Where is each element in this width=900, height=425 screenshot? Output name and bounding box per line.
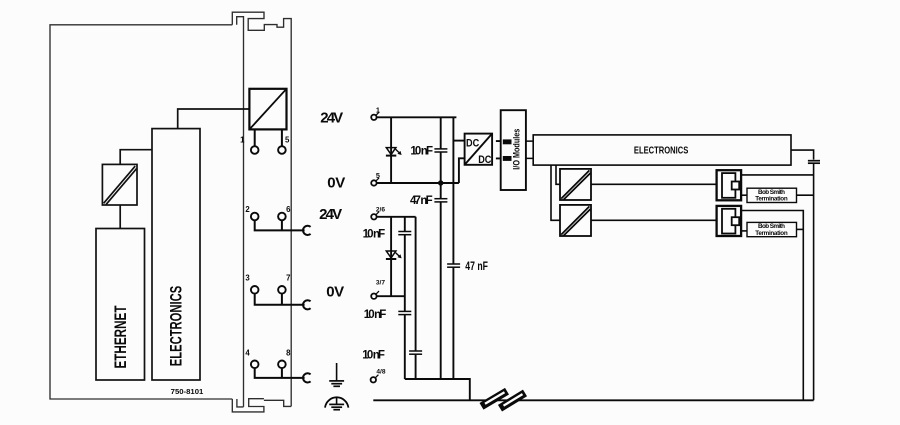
svg-text:5: 5 xyxy=(285,136,290,145)
svg-text:I/O Modules: I/O Modules xyxy=(512,129,523,170)
svg-text:0V: 0V xyxy=(327,175,345,192)
svg-text:10 nF: 10 nF xyxy=(410,145,433,157)
svg-text:7: 7 xyxy=(286,273,290,282)
svg-text:10 nF: 10 nF xyxy=(362,350,385,362)
svg-text:4: 4 xyxy=(245,349,250,358)
svg-text:Termination: Termination xyxy=(755,230,788,237)
svg-text:8: 8 xyxy=(286,349,291,358)
svg-text:24V: 24V xyxy=(319,206,342,223)
svg-text:750-8101: 750-8101 xyxy=(171,387,204,396)
svg-text:2/6: 2/6 xyxy=(376,206,385,213)
svg-text:1: 1 xyxy=(240,136,245,145)
svg-text:5: 5 xyxy=(376,171,380,180)
svg-text:47 nF: 47 nF xyxy=(465,261,488,273)
svg-text:DC: DC xyxy=(466,137,479,149)
svg-text:6: 6 xyxy=(286,205,291,214)
svg-text:0V: 0V xyxy=(326,283,344,300)
svg-text:3/7: 3/7 xyxy=(376,279,385,286)
svg-text:10 nF: 10 nF xyxy=(364,309,387,321)
svg-text:ELECTRONICS: ELECTRONICS xyxy=(634,146,689,157)
svg-text:2: 2 xyxy=(245,205,250,214)
svg-text:10 nF: 10 nF xyxy=(363,229,386,241)
svg-text:1: 1 xyxy=(376,105,380,114)
svg-text:ETHERNET: ETHERNET xyxy=(112,305,130,368)
svg-text:47 nF: 47 nF xyxy=(410,195,433,207)
svg-text:Termination: Termination xyxy=(755,196,788,203)
svg-text:DC: DC xyxy=(478,154,491,166)
svg-text:ELECTRONICS: ELECTRONICS xyxy=(168,286,186,367)
svg-text:24V: 24V xyxy=(320,109,343,126)
svg-text:4/8: 4/8 xyxy=(376,369,385,376)
svg-text:3: 3 xyxy=(245,274,250,283)
